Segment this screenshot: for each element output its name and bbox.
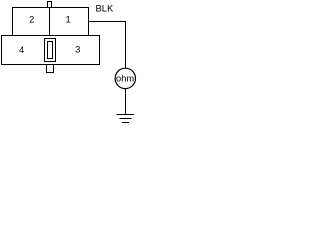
svg-text:3: 3 — [75, 44, 80, 55]
wire segment down to ohmmeter (vertical) — [125, 21, 127, 69]
connector top index tab — [48, 2, 52, 8]
ground bar 1 — [117, 114, 135, 116]
wire segment from ohmmeter to ground — [125, 89, 127, 115]
ground bar 2 — [120, 118, 132, 120]
svg-text:ohm: ohm — [116, 74, 134, 84]
connector bottom lock tab — [47, 65, 54, 73]
cavity divider between pins 2 and 1 — [49, 7, 51, 36]
connector upper body (cavities 2 and 1) — [13, 8, 89, 36]
keyway outer rectangle — [45, 39, 56, 62]
wire segment from pin 1 (horizontal) — [88, 21, 126, 23]
svg-text:2: 2 — [29, 14, 34, 25]
keyway inner rectangle — [48, 42, 53, 59]
svg-text:BLK: BLK — [96, 2, 114, 13]
ground bar 3 — [122, 122, 129, 124]
svg-text:4: 4 — [19, 44, 24, 55]
connector lower body (cavities 4 and 3) — [2, 36, 100, 65]
svg-text:1: 1 — [65, 14, 70, 25]
ohmmeter — [115, 68, 135, 88]
